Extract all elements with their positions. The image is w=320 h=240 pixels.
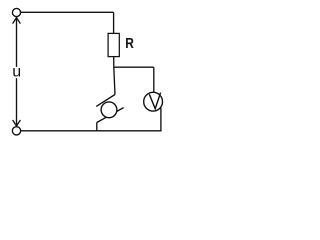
wire below resistor to switch <box>114 57 115 95</box>
wire resistor top drop <box>113 12 115 33</box>
wire top <box>21 11 114 13</box>
svg-text:R: R <box>125 35 134 52</box>
terminal circle bottom-left <box>12 127 20 135</box>
voltmeter U1 circle <box>144 92 163 111</box>
wire voltmeter drop <box>153 67 155 92</box>
resistor R <box>108 33 119 56</box>
wire bottom <box>21 130 162 132</box>
voltage arrow shaft lower <box>16 78 18 126</box>
svg-text:u: u <box>12 64 21 81</box>
voltage arrow shaft upper <box>16 17 18 67</box>
wire below switch <box>96 122 98 130</box>
arrowhead up at top terminal <box>13 18 21 24</box>
voltmeter V mark <box>149 93 160 109</box>
wire below voltmeter <box>160 108 162 131</box>
wire branch to voltmeter <box>114 66 154 68</box>
arrowhead down at bottom terminal <box>13 120 21 126</box>
commutator lower blade <box>97 108 124 123</box>
commutator circle <box>101 102 117 118</box>
terminal circle top-left <box>12 8 20 16</box>
commutator upper blade <box>96 95 115 107</box>
